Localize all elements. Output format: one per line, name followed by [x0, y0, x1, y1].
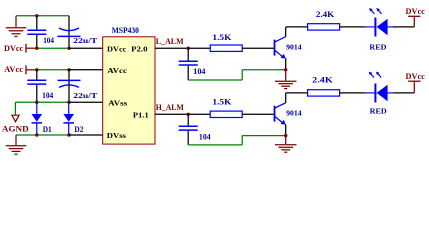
wire DVcc net: [37, 47, 69, 49]
wire Q2 emitter: [285, 124, 287, 135]
capacitor C6 104: [179, 114, 211, 145]
svg-text:DVcc: DVcc: [4, 44, 24, 53]
wire R4 to LED D4: [340, 92, 365, 94]
U1 pin label AVcc: [107, 66, 127, 75]
svg-text:AVss: AVss: [108, 99, 127, 108]
wire Q1 emitter: [285, 58, 287, 70]
power port AVcc left: [4, 65, 37, 74]
U1 pin label P1.1: [133, 111, 149, 120]
svg-text:104: 104: [193, 67, 205, 76]
wire H_ALM to R3: [188, 113, 210, 115]
wire top ground net: [16, 15, 69, 17]
U1 pin label AVss: [108, 99, 127, 108]
junction L_ALM: [187, 47, 190, 50]
power port DVcc right top: [406, 7, 426, 27]
wire AVcc net: [37, 69, 69, 71]
resistor R1 1.5K: [210, 33, 242, 52]
ground GND3 at Q1: [275, 70, 297, 89]
wire pin P2.0: [155, 47, 188, 49]
U1 designator MSP430: [112, 26, 139, 35]
svg-text:D2: D2: [74, 125, 83, 134]
svg-text:104: 104: [199, 133, 211, 142]
svg-text:1.5K: 1.5K: [212, 98, 232, 107]
svg-text:P1.1: P1.1: [133, 111, 149, 120]
wire R1 to Q1 base: [242, 47, 274, 49]
wire D3 to DVcc: [393, 26, 414, 28]
wire C5 bottom to emitter Q1: [188, 70, 286, 80]
wire Q2 collector: [286, 93, 308, 103]
wire DVss net: [16, 134, 69, 136]
junction DVcc/C2: [67, 47, 70, 50]
junction DVss/D2: [67, 133, 70, 136]
resistor R2 2.4K: [308, 10, 340, 30]
svg-text:AVcc: AVcc: [4, 65, 23, 74]
wire pin DVss to U1: [69, 134, 103, 136]
wire pin P1.1: [155, 113, 188, 115]
U1 pin label P2.0: [131, 44, 148, 53]
svg-text:AGND: AGND: [2, 125, 29, 134]
svg-text:2.4K: 2.4K: [312, 76, 334, 85]
svg-text:1.5K: 1.5K: [212, 33, 232, 42]
ground GND2 bottom-left: [6, 135, 27, 154]
capacitor C5 104: [179, 48, 206, 80]
svg-text:104: 104: [42, 91, 53, 100]
wire R3 to Q2 base: [242, 113, 274, 115]
capacitor C1 104: [27, 16, 54, 48]
diode D1: [32, 102, 52, 135]
wire AVss net: [15, 102, 69, 114]
svg-text:RED: RED: [370, 107, 387, 116]
wire pin AVss to U1: [69, 101, 103, 103]
net label H_ALM: [156, 103, 184, 112]
ground GND1 top-left: [6, 16, 27, 37]
capacitor C4 22u/T: [58, 70, 99, 102]
resistor R3 1.5K: [210, 98, 242, 118]
wire C6 bottom to emitter Q2: [188, 136, 286, 145]
LED D3 RED: [365, 8, 393, 51]
svg-text:22u/T: 22u/T: [73, 36, 98, 45]
svg-text:104: 104: [43, 36, 54, 45]
svg-text:P2.0: P2.0: [131, 44, 148, 53]
wire Q1 collector: [286, 27, 308, 37]
junction Q1 emitter: [284, 68, 287, 71]
svg-text:D1: D1: [43, 125, 52, 134]
svg-text:DVss: DVss: [107, 131, 126, 140]
diode D2: [63, 102, 83, 135]
net label L_ALM: [156, 37, 184, 46]
capacitor C3 104: [27, 70, 53, 102]
svg-text:9014: 9014: [286, 109, 302, 118]
svg-text:22u/T: 22u/T: [73, 91, 98, 100]
junction on top wire: [35, 14, 38, 17]
svg-text:2.4K: 2.4K: [316, 10, 335, 19]
junction AVcc/C4: [67, 68, 70, 71]
transistor Q2 9014: [275, 103, 302, 125]
svg-text:RED: RED: [369, 42, 386, 51]
capacitor C2 22u/T: [58, 16, 99, 48]
power port DVcc left: [4, 44, 37, 54]
transistor Q1 9014: [275, 37, 302, 59]
ground GND4 at Q2: [275, 136, 297, 153]
junction AVss/D2: [67, 101, 70, 104]
junction Q2 emitter: [284, 134, 287, 137]
svg-text:AVcc: AVcc: [107, 66, 127, 75]
svg-text:DVcc: DVcc: [406, 72, 426, 81]
wire pin AVcc to U1: [69, 69, 103, 71]
power port DVcc right bottom: [406, 72, 426, 93]
wire R2 to LED D3: [340, 26, 365, 28]
power port AGND: [2, 115, 29, 134]
U1 pin label DVss: [107, 131, 126, 140]
svg-text:L_ALM: L_ALM: [156, 37, 184, 46]
svg-text:MSP430: MSP430: [112, 26, 139, 35]
junction H_ALM: [187, 113, 190, 116]
U1 pin label DVcc: [107, 44, 127, 53]
svg-text:9014: 9014: [286, 43, 302, 52]
junction DVcc/C1: [35, 47, 38, 50]
wire L_ALM to R1: [188, 47, 210, 49]
svg-text:DVcc: DVcc: [107, 44, 127, 53]
svg-text:H_ALM: H_ALM: [156, 103, 184, 112]
wire pin DVcc to U1: [69, 47, 103, 49]
svg-text:DVcc: DVcc: [406, 7, 426, 16]
wire D4 to DVcc: [393, 92, 414, 94]
junction AVss/D1: [35, 101, 38, 104]
op-amp U1 MSP430 body: [103, 37, 155, 144]
resistor R4 2.4K: [308, 76, 340, 97]
junction DVss/D1: [35, 133, 38, 136]
junction AVcc/C3: [35, 68, 38, 71]
LED D4 RED: [365, 72, 393, 116]
